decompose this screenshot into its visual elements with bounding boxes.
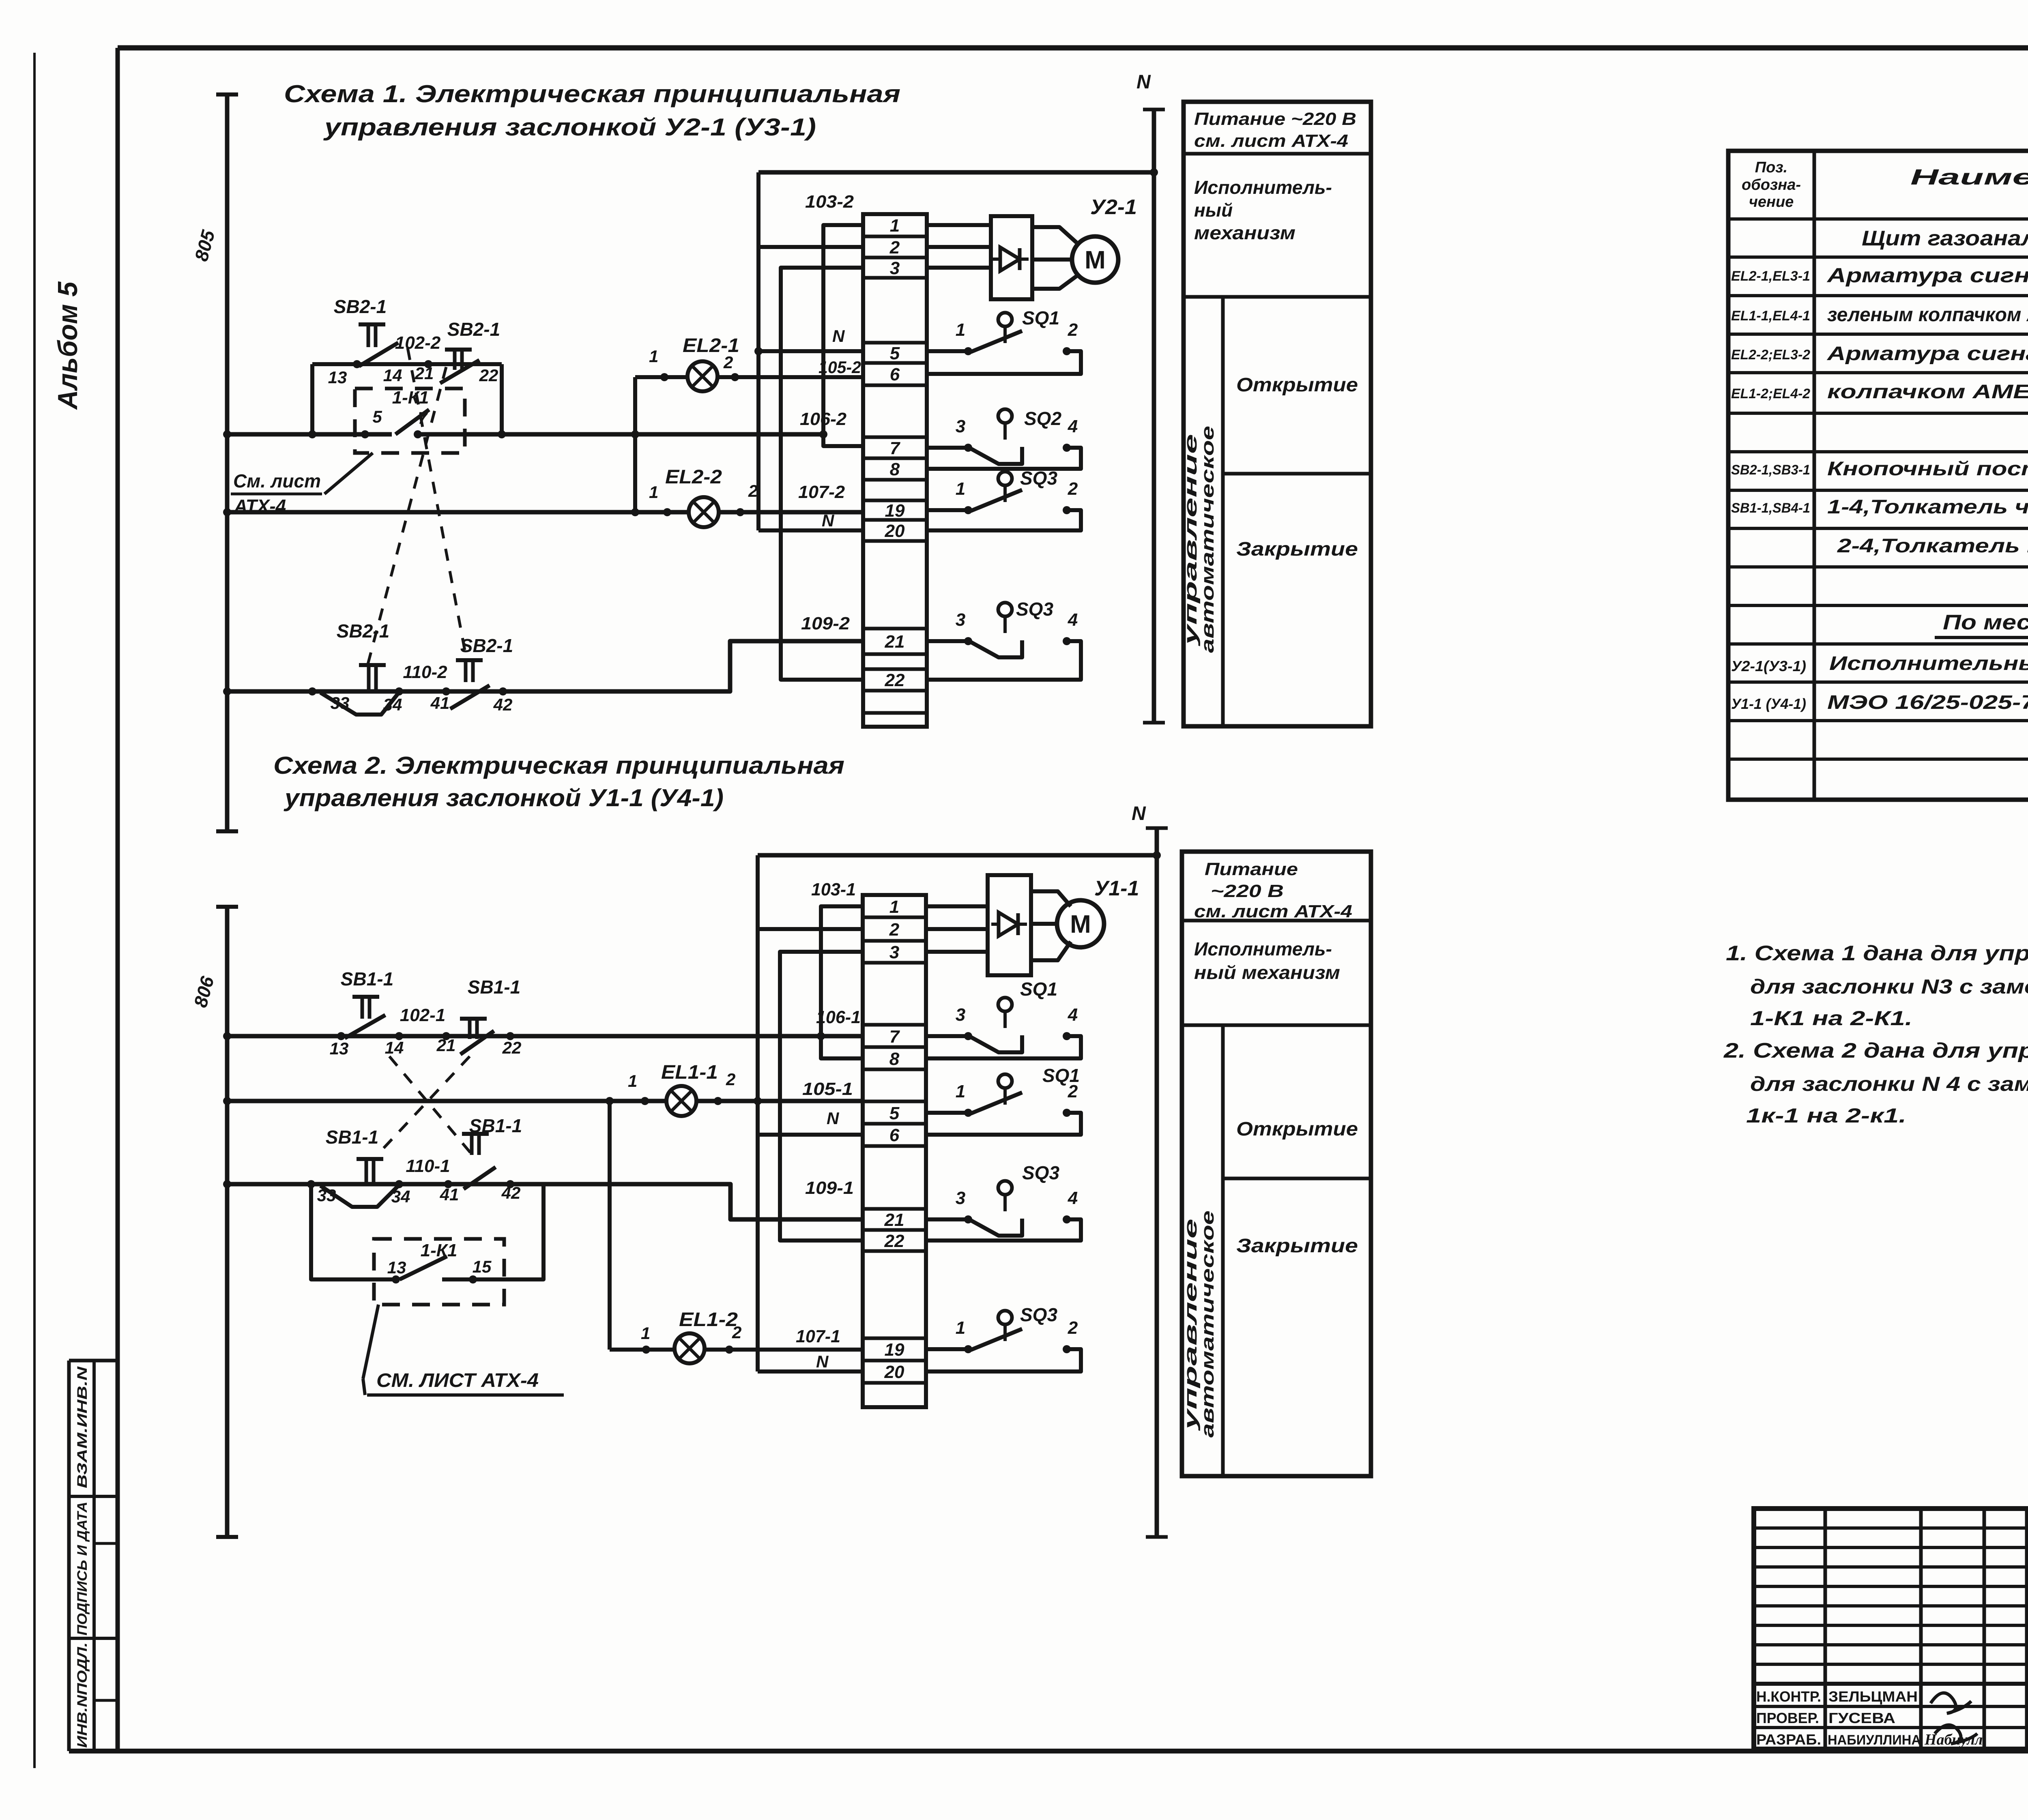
svg-text:13: 13 [387, 1258, 406, 1277]
svg-text:1: 1 [628, 1071, 637, 1090]
svg-text:EL2-1: EL2-1 [683, 335, 739, 356]
svg-text:22: 22 [885, 670, 905, 690]
svg-text:N: N [1132, 803, 1146, 824]
svg-text:SQ3: SQ3 [1022, 1162, 1059, 1183]
svg-text:109-1: 109-1 [805, 1178, 854, 1198]
svg-text:22: 22 [502, 1038, 522, 1057]
svg-text:41: 41 [440, 1185, 459, 1204]
svg-text:N: N [822, 511, 835, 530]
svg-text:механизм: механизм [1194, 222, 1295, 243]
svg-text:19: 19 [885, 1340, 904, 1360]
svg-text:EL1-1: EL1-1 [661, 1062, 718, 1083]
svg-text:Исполнитель-: Исполнитель- [1194, 177, 1332, 198]
svg-text:33: 33 [331, 693, 350, 713]
svg-text:2: 2 [1068, 1318, 1078, 1338]
svg-text:8: 8 [890, 459, 900, 479]
svg-text:20: 20 [885, 521, 905, 541]
svg-text:110-2: 110-2 [403, 662, 447, 682]
svg-text:ПРОВЕР.: ПРОВЕР. [1756, 1710, 1819, 1726]
svg-text:1: 1 [956, 320, 965, 340]
svg-text:ЕL1-1,ЕL4-1: ЕL1-1,ЕL4-1 [1731, 308, 1810, 324]
svg-text:N: N [832, 326, 845, 346]
svg-text:3: 3 [890, 258, 900, 278]
svg-text:1-К1: 1-К1 [392, 388, 429, 408]
svg-text:3: 3 [956, 416, 965, 436]
svg-text:~220 В: ~220 В [1211, 881, 1284, 901]
svg-text:ПОДПИСЬ И ДАТА: ПОДПИСЬ И ДАТА [75, 1502, 90, 1635]
svg-text:Питание: Питание [1205, 859, 1298, 879]
svg-text:см. лист АТХ-4: см. лист АТХ-4 [1194, 901, 1352, 921]
svg-text:N: N [827, 1109, 840, 1128]
svg-text:ЕL2-2;ЕL3-2: ЕL2-2;ЕL3-2 [1731, 347, 1810, 363]
svg-text:ВЗАМ.ИНВ.N: ВЗАМ.ИНВ.N [75, 1366, 90, 1488]
svg-text:103-1: 103-1 [811, 880, 856, 899]
svg-text:8: 8 [889, 1049, 900, 1069]
svg-text:SQ3: SQ3 [1020, 1304, 1057, 1325]
svg-text:N: N [1136, 71, 1151, 93]
svg-text:3: 3 [956, 1005, 965, 1025]
svg-text:2: 2 [1068, 479, 1078, 499]
svg-text:Исполнитель-: Исполнитель- [1194, 938, 1332, 959]
svg-text:SB1-1: SB1-1 [469, 1115, 522, 1136]
svg-text:1к-1 на 2-к1.: 1к-1 на 2-к1. [1746, 1104, 1906, 1127]
svg-text:ГУСЕВА: ГУСЕВА [1828, 1710, 1895, 1726]
svg-text:15: 15 [473, 1257, 492, 1276]
svg-text:автоматическое: автоматическое [1198, 426, 1218, 653]
svg-text:НАБИУЛЛИНА: НАБИУЛЛИНА [1828, 1732, 1921, 1748]
svg-text:22: 22 [884, 1231, 904, 1251]
svg-text:21: 21 [884, 1210, 904, 1230]
svg-text:Исполнительный механизм: Исполнительный механизм [1829, 653, 2028, 674]
svg-text:обозна-: обозна- [1742, 176, 1801, 193]
svg-text:33: 33 [317, 1186, 336, 1205]
svg-text:Набиулл: Набиулл [1924, 1731, 1983, 1748]
svg-text:3: 3 [956, 1188, 965, 1208]
svg-text:41: 41 [430, 693, 450, 713]
svg-text:1: 1 [956, 1318, 965, 1338]
svg-text:Н.КОНТР.: Н.КОНТР. [1756, 1688, 1821, 1705]
svg-text:SB2-1: SB2-1 [337, 620, 389, 642]
svg-text:1: 1 [890, 216, 900, 236]
svg-text:106-1: 106-1 [816, 1007, 861, 1027]
svg-text:Открытие: Открытие [1236, 1118, 1358, 1140]
svg-text:2: 2 [889, 920, 900, 940]
svg-text:У2-1(У3-1): У2-1(У3-1) [1731, 658, 1806, 674]
svg-text:21: 21 [436, 1036, 456, 1055]
svg-text:2: 2 [748, 481, 758, 500]
svg-text:Питание ~220 В: Питание ~220 В [1194, 109, 1356, 129]
svg-text:Схема 2. Электрическая принцип: Схема 2. Электрическая принципиальная [273, 752, 844, 779]
svg-text:13: 13 [328, 368, 347, 387]
svg-text:4: 4 [1068, 416, 1078, 436]
svg-text:МЭО 16/25-025-77, ~220В: МЭО 16/25-025-77, ~220В [1827, 692, 2028, 713]
svg-text:Арматура сигнальная с красным: Арматура сигнальная с красным [1827, 343, 2028, 365]
svg-text:1: 1 [889, 897, 899, 917]
svg-text:2-4,Толкатель красный, 2р, „На: 2-4,Толкатель красный, 2р, „Назад“ [1837, 535, 2028, 557]
svg-text:М: М [1070, 910, 1091, 938]
svg-text:34: 34 [383, 695, 402, 714]
svg-text:РАЗРАБ.: РАЗРАБ. [1756, 1731, 1821, 1748]
svg-text:105-2: 105-2 [819, 358, 861, 377]
svg-text:13: 13 [330, 1039, 349, 1058]
svg-text:EL2-2: EL2-2 [665, 466, 722, 488]
svg-text:21: 21 [415, 364, 434, 383]
svg-text:для заслонки N3 с заменой: для заслонки N3 с заменой индекса „ 2“ н… [1750, 975, 2028, 998]
svg-text:3: 3 [956, 610, 965, 630]
svg-text:109-2: 109-2 [801, 614, 850, 633]
svg-text:Открытие: Открытие [1236, 374, 1358, 396]
svg-text:42: 42 [501, 1183, 521, 1202]
svg-text:Закрытие: Закрытие [1236, 539, 1358, 560]
svg-text:SQ3: SQ3 [1016, 599, 1053, 620]
svg-text:1: 1 [649, 347, 658, 366]
svg-text:см. лист АТХ-4: см. лист АТХ-4 [1194, 131, 1348, 151]
svg-text:6: 6 [890, 365, 900, 384]
svg-text:20: 20 [884, 1362, 904, 1382]
svg-text:2: 2 [726, 1070, 735, 1089]
svg-text:SВ1-1,SВ4-1: SВ1-1,SВ4-1 [1731, 500, 1810, 516]
svg-text:Щит газоанализаторов.: Щит газоанализаторов. [1862, 227, 2028, 250]
svg-text:2. Схема 2 дана для управле: 2. Схема 2 дана для управления заслонкой… [1723, 1039, 2028, 1062]
svg-text:управления заслонкой У1-1 (У4-: управления заслонкой У1-1 (У4-1) [284, 784, 724, 811]
svg-text:Схема 1. Электрическая принцип: Схема 1. Электрическая принципиальная [284, 80, 900, 107]
svg-text:102-1: 102-1 [400, 1005, 446, 1025]
svg-text:7: 7 [889, 1027, 900, 1047]
svg-text:АТХ-4: АТХ-4 [234, 496, 286, 517]
svg-text:105-1: 105-1 [802, 1079, 853, 1099]
svg-text:1-4,Толкатель черный, 23, „Впе: 1-4,Толкатель черный, 23, „Вперед“ [1827, 496, 2028, 518]
svg-text:N: N [816, 1352, 829, 1371]
svg-text:19: 19 [885, 501, 905, 521]
svg-text:SQ2: SQ2 [1024, 408, 1061, 429]
svg-text:1-К1: 1-К1 [421, 1241, 458, 1260]
svg-text:107-2: 107-2 [798, 482, 845, 502]
svg-text:107-1: 107-1 [796, 1326, 840, 1346]
svg-text:автоматическое: автоматическое [1198, 1210, 1218, 1438]
svg-text:2: 2 [889, 238, 900, 258]
svg-text:21: 21 [885, 632, 905, 652]
svg-text:2: 2 [1068, 320, 1078, 340]
svg-text:У2-1: У2-1 [1090, 195, 1137, 219]
svg-text:У1-1 (У4-1): У1-1 (У4-1) [1731, 695, 1806, 712]
svg-text:Кнопочный пост ПКЕ-122-2У2: Кнопочный пост ПКЕ-122-2У2 [1827, 458, 2028, 480]
svg-text:6: 6 [889, 1125, 900, 1145]
svg-text:1. Схема 1 дана для управлен: 1. Схема 1 дана для управления заслонкой… [1726, 942, 2028, 965]
svg-text:SQ1: SQ1 [1042, 1065, 1080, 1086]
svg-text:См. лист: См. лист [233, 470, 321, 491]
svg-text:SB1-1: SB1-1 [468, 977, 520, 998]
svg-text:3: 3 [889, 942, 899, 962]
svg-text:SB2-1: SB2-1 [460, 635, 513, 656]
svg-text:1: 1 [641, 1324, 650, 1343]
svg-text:ИНВ.NПОДЛ.: ИНВ.NПОДЛ. [75, 1642, 90, 1748]
svg-text:SQ3: SQ3 [1020, 468, 1057, 489]
svg-text:для заслонки N 4 с заменой: для заслонки N 4 с заменой индекса „ 1“ … [1750, 1073, 2028, 1095]
svg-text:14: 14 [383, 366, 402, 385]
svg-text:Наименование: Наименование [1910, 165, 2028, 189]
svg-text:106-2: 106-2 [800, 409, 847, 429]
svg-text:Альбом 5: Альбом 5 [52, 281, 83, 410]
svg-text:ЕL2-1,ЕL3-1: ЕL2-1,ЕL3-1 [1731, 268, 1810, 284]
svg-text:У1-1: У1-1 [1094, 877, 1139, 900]
svg-text:34: 34 [391, 1187, 410, 1206]
svg-text:управления заслонкой У2-1 (У3-: управления заслонкой У2-1 (У3-1) [323, 114, 816, 141]
svg-text:зеленым колпачком АМЕ 32.322.1: зеленым колпачком АМЕ 32.322.142 [1827, 304, 2028, 326]
svg-text:Поз.: Поз. [1755, 159, 1788, 176]
svg-text:чение: чение [1749, 193, 1794, 210]
svg-text:110-1: 110-1 [406, 1156, 450, 1176]
svg-text:7: 7 [890, 438, 901, 458]
svg-text:ЗЕЛЬЦМАН: ЗЕЛЬЦМАН [1828, 1688, 1918, 1705]
svg-text:SB2-1: SB2-1 [334, 296, 387, 317]
svg-text:По месту.: По месту. [1943, 611, 2028, 634]
svg-text:SQ1: SQ1 [1022, 307, 1059, 328]
svg-text:1: 1 [956, 479, 965, 499]
svg-text:М: М [1085, 246, 1106, 274]
svg-text:5: 5 [890, 343, 900, 363]
svg-text:EL1-2: EL1-2 [679, 1309, 738, 1331]
svg-text:Арматура сигнальная с: Арматура сигнальная с [1826, 264, 2028, 287]
svg-text:14: 14 [385, 1038, 404, 1057]
svg-text:42: 42 [493, 695, 513, 714]
svg-text:1-К1 на 2-К1.: 1-К1 на 2-К1. [1750, 1007, 1912, 1030]
svg-text:ный механизм: ный механизм [1194, 962, 1340, 983]
svg-text:5: 5 [889, 1103, 900, 1123]
svg-text:Закрытие: Закрытие [1236, 1235, 1358, 1257]
svg-text:4: 4 [1068, 610, 1078, 630]
svg-text:1: 1 [649, 483, 658, 502]
svg-text:SB1-1: SB1-1 [326, 1127, 378, 1148]
svg-text:102-2: 102-2 [395, 333, 441, 353]
svg-text:ЕL1-2;ЕL4-2: ЕL1-2;ЕL4-2 [1731, 386, 1810, 401]
svg-text:SQ1: SQ1 [1020, 979, 1057, 1000]
svg-text:4: 4 [1068, 1005, 1078, 1025]
svg-text:ный: ный [1194, 200, 1233, 221]
svg-text:SB2-1: SB2-1 [447, 319, 500, 340]
svg-text:СМ. ЛИСТ АТХ-4: СМ. ЛИСТ АТХ-4 [376, 1370, 539, 1391]
svg-text:колпачком АМЕ 32.122.142: колпачком АМЕ 32.122.142 [1827, 381, 2028, 403]
svg-text:SВ2-1,SВ3-1: SВ2-1,SВ3-1 [1731, 462, 1810, 478]
svg-text:5: 5 [372, 407, 382, 426]
svg-text:1: 1 [956, 1082, 965, 1101]
svg-text:103-2: 103-2 [805, 192, 854, 212]
svg-text:22: 22 [479, 366, 498, 385]
svg-text:SB1-1: SB1-1 [341, 968, 393, 989]
svg-text:4: 4 [1068, 1188, 1078, 1208]
